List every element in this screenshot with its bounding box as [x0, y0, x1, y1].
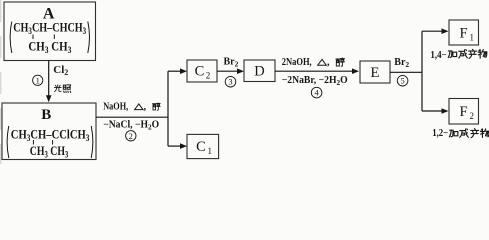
svg-text:,: ,	[144, 102, 147, 113]
svg-text:1: 1	[470, 33, 475, 43]
arrow fork to C1	[168, 143, 187, 149]
arrow C2 to D (reaction 3)	[217, 68, 244, 74]
svg-text:F: F	[459, 104, 467, 120]
label guangzhao 光照	[54, 85, 70, 93]
box B	[2, 103, 96, 160]
svg-text:C: C	[195, 64, 205, 80]
svg-text:2: 2	[206, 71, 211, 81]
svg-text:,: ,	[327, 57, 330, 68]
svg-text:NaOH,: NaOH,	[103, 101, 128, 112]
svg-text:Br2: Br2	[224, 57, 239, 69]
formula A line 1: (CH3CH-CHCH3)	[10, 19, 89, 53]
svg-text:1: 1	[36, 75, 40, 85]
bond lines A	[33, 35, 54, 40]
circled 4	[311, 87, 322, 98]
label 1,4-addition product	[430, 49, 486, 61]
box A	[4, 2, 96, 61]
formula B line 1: (CH3CH-CClCH3)	[7, 126, 93, 158]
svg-text:C: C	[196, 139, 206, 155]
svg-text:E: E	[370, 65, 379, 81]
arrow D to E (reaction 4)	[275, 68, 359, 74]
svg-text:1: 1	[208, 146, 213, 156]
svg-text:F: F	[459, 26, 467, 42]
arrow fork2 to F1	[422, 28, 449, 34]
svg-text:CH3CH–CClCH3: CH3CH–CClCH3	[11, 126, 90, 143]
svg-text:3: 3	[228, 77, 232, 87]
box C1	[187, 134, 219, 158]
svg-text:1,2−: 1,2−	[432, 128, 448, 139]
svg-text:2: 2	[470, 111, 475, 121]
scan edge artifact line	[0, 0, 2, 164]
circled 2	[126, 131, 136, 141]
svg-text:Cl2: Cl2	[53, 64, 68, 77]
svg-text:2: 2	[129, 131, 133, 141]
wire B to fork (reaction 2)	[96, 116, 168, 118]
label NaOH, triangle, chun	[103, 101, 160, 112]
svg-text:Br2: Br2	[394, 57, 409, 69]
label 1,2-addition product	[432, 128, 489, 139]
fork vertical wire	[167, 71, 169, 146]
svg-text:D: D	[254, 64, 264, 80]
box F1	[449, 20, 479, 45]
box D	[244, 60, 275, 82]
circled 5	[397, 75, 408, 86]
svg-text:−NaCl, −H2O: −NaCl, −H2O	[103, 120, 159, 132]
arrow fork2 to F2	[422, 108, 449, 114]
svg-text:B: B	[41, 107, 51, 123]
svg-text:1,4−: 1,4−	[430, 50, 447, 61]
arrow A to B (reaction 1)	[46, 61, 52, 103]
svg-text:4: 4	[314, 88, 319, 98]
svg-text:CH3 CH3: CH3 CH3	[30, 143, 69, 160]
bond lines B	[33, 140, 52, 145]
svg-text:5: 5	[400, 76, 404, 86]
label 2NaOH, triangle, chun	[282, 57, 345, 68]
box E	[360, 61, 390, 83]
svg-text:2NaOH,: 2NaOH,	[282, 57, 312, 68]
svg-text:−2NaBr, −2H2O: −2NaBr, −2H2O	[282, 75, 348, 87]
box F2	[449, 99, 479, 125]
circled 1	[33, 75, 43, 85]
svg-text:CH3 CH3: CH3 CH3	[28, 38, 71, 55]
svg-text:CH3CH–CHCH3: CH3CH–CHCH3	[13, 19, 86, 36]
box C2	[187, 60, 217, 82]
arrow fork to C2	[168, 68, 187, 74]
fork 2 vertical wire	[421, 31, 423, 111]
circled 3	[225, 76, 236, 87]
wire E to fork 2 (reaction 5)	[390, 71, 422, 73]
